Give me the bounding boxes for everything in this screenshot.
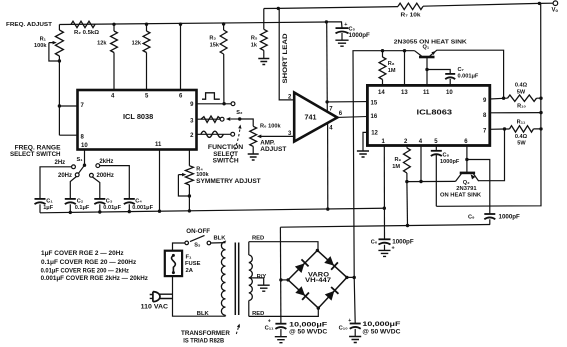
svg-text:12k: 12k [132, 41, 142, 47]
resistor R8 1M [382, 51, 384, 86]
svg-text:15: 15 [371, 100, 378, 106]
svg-text:+: + [348, 318, 351, 324]
capacitor C4 0.001uF [124, 198, 135, 200]
svg-text:1000pF: 1000pF [440, 159, 460, 165]
svg-text:1000pF: 1000pF [499, 214, 521, 221]
resistor R7 10k [398, 3, 423, 9]
ground at pin 12 [357, 151, 369, 157]
resistor R11 0.4ohm 5W [505, 128, 542, 130]
svg-text:+: + [268, 318, 271, 324]
svg-text:ON HEAT SINK: ON HEAT SINK [440, 193, 482, 199]
wire pin 2 sine output [197, 133, 231, 135]
svg-text:R₂ 0.5kΩ: R₂ 0.5kΩ [74, 30, 100, 36]
op IC U1 ICL8038 [78, 90, 197, 150]
svg-text:C₁: C₁ [46, 198, 53, 204]
svg-text:C₁₁: C₁₁ [265, 326, 275, 332]
svg-text:@ 50 WVDC: @ 50 WVDC [289, 329, 328, 336]
svg-text:F₁: F₁ [186, 255, 193, 261]
capacitor C8 1000pF [435, 146, 437, 207]
svg-text:100k: 100k [196, 172, 209, 178]
svg-text:741: 741 [305, 115, 317, 122]
wire pin 13 to Q1 base rail [404, 51, 406, 86]
ground below R5 [258, 59, 269, 65]
svg-text:C₉: C₉ [468, 215, 475, 221]
svg-text:R₆ 100k: R₆ 100k [260, 124, 281, 130]
wire -V bus (bottom) [40, 208, 384, 213]
svg-text:R₃: R₃ [209, 36, 216, 42]
switch S3 on-off [173, 243, 185, 251]
resistor R3 15k [222, 22, 225, 25]
capacitor C1 1uF [35, 198, 46, 200]
wire upper rail to Vo [264, 3, 553, 8]
svg-text:15k: 15k [210, 43, 220, 49]
svg-text:BLK: BLK [197, 311, 210, 317]
diode D2 [324, 256, 338, 270]
svg-text:1000pF: 1000pF [349, 32, 371, 39]
resistor R10 0.4ohm 5W [504, 97, 541, 99]
svg-text:ON-OFF: ON-OFF [186, 228, 210, 235]
wire 200Hz contact to C3 [92, 177, 100, 199]
svg-text:0.4Ω: 0.4Ω [515, 134, 528, 140]
svg-text:R₈: R₈ [388, 61, 395, 67]
svg-text:0.001μF COVER RGE 2kHz — 20kHz: 0.001μF COVER RGE 2kHz — 20kHz [41, 275, 148, 282]
switch S2 function select [238, 117, 241, 120]
svg-text:1M: 1M [388, 68, 396, 74]
wire pin 6 to top bus [179, 23, 182, 26]
svg-text:1000pF: 1000pF [392, 238, 414, 245]
wire R1 to pins 7,8 [59, 61, 77, 135]
wire -V bridge bus [280, 225, 490, 228]
transformer core [235, 243, 238, 316]
svg-text:Vₒ: Vₒ [552, 8, 559, 14]
capacitor C7 0.001uF [427, 70, 450, 86]
svg-text:Q₁: Q₁ [423, 44, 430, 50]
transformer T1 secondary [248, 242, 250, 255]
plug 110 VAC [153, 292, 160, 302]
resistor R2 0.5k [71, 21, 95, 27]
svg-text:1k: 1k [251, 43, 258, 49]
svg-text:IS TRIAD R82B: IS TRIAD R82B [183, 337, 224, 344]
square wave symbol [202, 93, 220, 99]
wire pin 8 to output rail [490, 112, 541, 114]
svg-text:C₇: C₇ [458, 67, 464, 73]
svg-text:0.001μF: 0.001μF [132, 205, 153, 211]
node output rail tap [538, 2, 541, 5]
svg-text:C₆: C₆ [371, 239, 378, 245]
wire 741 output pin 6 to ICL8063 pin 16 [337, 116, 367, 119]
svg-text:S₂: S₂ [236, 110, 243, 116]
dashed selector arc [231, 127, 240, 159]
wire Q1 base to pin 11 [426, 57, 428, 85]
svg-text:11: 11 [155, 142, 162, 148]
svg-text:RED: RED [252, 235, 264, 241]
svg-text:0.001μF: 0.001μF [458, 74, 479, 80]
svg-text:10: 10 [81, 143, 88, 149]
svg-text:ICL8063: ICL8063 [417, 108, 453, 117]
wire 741 pin 4 to -V bus [327, 123, 329, 209]
svg-text:C₄: C₄ [135, 198, 142, 204]
svg-text:+: + [344, 22, 347, 28]
wire R9 node to -V bus [406, 182, 409, 226]
svg-text:10,000μF: 10,000μF [362, 321, 400, 328]
resistor R5 1k [263, 9, 265, 59]
svg-text:R₅: R₅ [251, 36, 258, 42]
wire 20Hz contact to C2 [70, 177, 76, 199]
svg-text:C₃: C₃ [106, 198, 113, 204]
svg-text:12: 12 [371, 131, 378, 137]
transistor Q2 2N3791 [460, 172, 475, 175]
resistor 12k (pin 5) [145, 23, 148, 26]
svg-text:+: + [392, 245, 395, 251]
svg-text:2Hz: 2Hz [55, 160, 66, 166]
svg-text:5W: 5W [517, 141, 526, 147]
wire top bus (+V) [59, 22, 326, 25]
sine wave symbol [201, 131, 223, 137]
svg-text:SWITCH: SWITCH [213, 157, 240, 164]
svg-text:2kHz: 2kHz [99, 159, 113, 165]
svg-text:0.01μF COVER RGE 200 — 2kHz: 0.01μF COVER RGE 200 — 2kHz [41, 268, 129, 275]
svg-text:10,000μF: 10,000μF [289, 322, 327, 329]
svg-text:5W: 5W [517, 89, 526, 95]
wire +V to 741 pin 7 [325, 20, 328, 23]
op-amp U2 741 [294, 93, 337, 142]
dashed arrow to core [236, 325, 239, 334]
svg-text:R₁₁: R₁₁ [517, 119, 526, 125]
potentiometer R1 100k [58, 25, 60, 31]
svg-text:R₁₀: R₁₀ [517, 104, 526, 110]
wire pin 3 triangle output [197, 118, 221, 120]
svg-text:BLK: BLK [214, 236, 227, 242]
svg-text:2N3791: 2N3791 [456, 186, 477, 192]
node 741 pin7 supply tap [325, 100, 328, 103]
svg-text:R₁: R₁ [40, 37, 47, 43]
svg-text:2A: 2A [186, 268, 194, 274]
wire pin 4 down [420, 146, 422, 182]
svg-text:1M: 1M [392, 164, 400, 170]
capacitor C2 0.1uF [65, 198, 76, 200]
wire pin 9 out [490, 97, 504, 100]
svg-text:0.01μF: 0.01μF [103, 205, 121, 211]
potentiometer R6 100k amp adjust [240, 119, 254, 154]
svg-text:11: 11 [423, 90, 430, 96]
wire 741 pin7 to ICL8063 pin 15 [327, 101, 367, 103]
wire ICL8038 pin 11 to -V bus [159, 150, 161, 212]
wire pin 7 out [490, 128, 505, 130]
wire R6 wiper to 741 pin 3 [261, 135, 294, 137]
svg-text:VH-447: VH-447 [305, 278, 332, 284]
svg-text:2N3055 ON HEAT SINK: 2N3055 ON HEAT SINK [394, 39, 468, 45]
svg-text:S₁: S₁ [77, 157, 84, 163]
svg-text:ADJUST: ADJUST [260, 146, 286, 153]
terminal Vo [553, 1, 558, 6]
capacitor C9 1000pF [484, 213, 495, 215]
capacitor C11 10000uF [275, 323, 286, 325]
svg-text:FUNCTION: FUNCTION [208, 144, 244, 151]
wire 2kHz contact to C4 [100, 166, 130, 199]
capacitor C3 0.01uF [94, 198, 105, 200]
wire pin 1 to -V bus and C6 [383, 146, 385, 240]
svg-text:S₃: S₃ [194, 243, 201, 249]
fuse F1 2A [165, 251, 182, 276]
wire ICL8038 pin 10 to S1 [84, 150, 86, 166]
wire bridge right to C10 [353, 276, 356, 279]
capacitor C10 10000uF [350, 323, 361, 325]
svg-text:R/Y: R/Y [257, 274, 267, 280]
svg-text:TRANSFORMER: TRANSFORMER [181, 330, 230, 337]
node short-lead tap [277, 7, 280, 10]
svg-text:R₉: R₉ [394, 157, 401, 163]
svg-text:SHORT LEAD: SHORT LEAD [282, 33, 289, 84]
svg-text:Q₂: Q₂ [463, 180, 470, 186]
diode D3 [295, 286, 309, 300]
wire output rail [436, 3, 541, 206]
capacitor C5 1000pF [326, 22, 342, 40]
svg-text:C₂: C₂ [77, 198, 84, 204]
wire fuse to primary bottom [173, 276, 226, 316]
diode D1 [295, 259, 309, 273]
capacitor C6 1000pF [379, 238, 391, 240]
transformer T1 primary [225, 240, 227, 243]
svg-text:14: 14 [378, 90, 385, 96]
potentiometer R4 100k symmetry adjust [188, 150, 190, 211]
svg-text:SELECT SWITCH: SELECT SWITCH [10, 151, 61, 158]
wire SHORT LEAD to 741 pin 2 [279, 8, 294, 100]
switch S1 freq range [83, 164, 86, 167]
op IC U3 ICL8063 [367, 85, 489, 145]
svg-text:C₈: C₈ [443, 153, 450, 159]
svg-text:0.4Ω: 0.4Ω [515, 83, 528, 89]
resistor 12k (pin 4) [112, 23, 115, 26]
svg-text:ICL 8038: ICL 8038 [123, 112, 153, 121]
resistor R9 1M [406, 146, 408, 182]
svg-text:SYMMETRY ADJUST: SYMMETRY ADJUST [196, 178, 261, 185]
node R1 bottom junction [58, 59, 61, 62]
svg-text:0.1μF: 0.1μF [75, 205, 90, 211]
wire pin 12 to ground [363, 132, 367, 151]
triangle wave symbol [201, 116, 221, 122]
svg-text:10: 10 [446, 90, 453, 96]
svg-text:12k: 12k [97, 41, 107, 47]
svg-text:FREQ. ADJUST: FREQ. ADJUST [6, 22, 52, 28]
diode D4 [325, 287, 339, 301]
svg-text:0.1μF COVER RGE 20 — 200Hz: 0.1μF COVER RGE 20 — 200Hz [41, 259, 136, 266]
svg-text:16: 16 [371, 114, 378, 120]
svg-text:20Hz: 20Hz [58, 173, 72, 179]
wire Q2 base net to C9 [467, 160, 490, 214]
wire -V corner to bridge left [279, 227, 282, 323]
svg-text:FUSE: FUSE [185, 261, 201, 267]
wire Q2 collector net [407, 180, 456, 182]
wire 2Hz contact to C1 [40, 167, 72, 199]
svg-text:1μF COVER RGE 2 — 20Hz: 1μF COVER RGE 2 — 20Hz [41, 250, 124, 257]
wire pin 9 square-wave output [197, 103, 232, 105]
svg-text:1μF: 1μF [43, 205, 54, 211]
wire +V riser / Q1 collector rail [353, 51, 415, 278]
svg-text:100k: 100k [34, 43, 47, 49]
bridge rectifier VARO VH-447 [288, 250, 347, 308]
svg-text:@ 50 WVDC: @ 50 WVDC [362, 329, 401, 336]
wire R11 node down to Q2 emitter [478, 129, 505, 181]
svg-text:C₁₀: C₁₀ [339, 326, 349, 332]
svg-text:200Hz: 200Hz [97, 173, 114, 179]
svg-text:110 VAC: 110 VAC [141, 304, 169, 311]
svg-text:R₇ 10k: R₇ 10k [401, 12, 422, 18]
svg-text:13: 13 [401, 90, 408, 96]
